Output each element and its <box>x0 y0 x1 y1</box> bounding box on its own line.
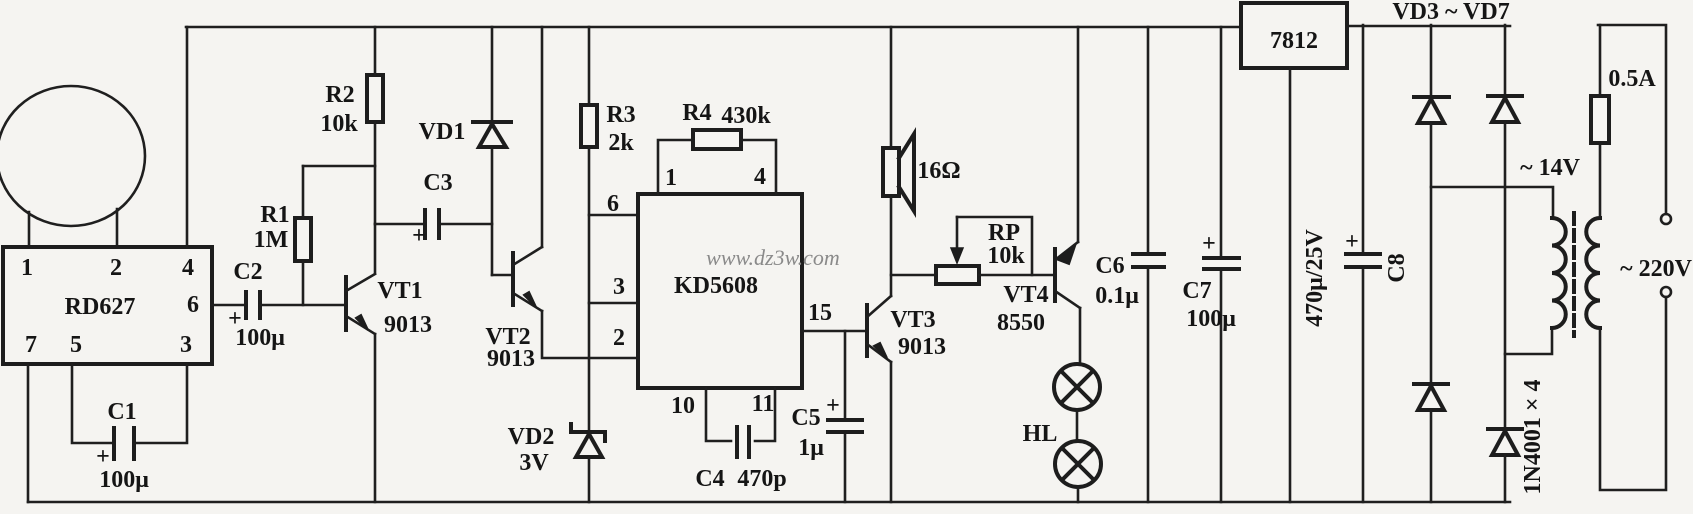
wire VT4 collector to lamps <box>1079 308 1082 364</box>
wire pin10 KD5608 <box>671 388 731 441</box>
capacitor C3 <box>375 170 492 249</box>
resistor R4 <box>682 100 771 149</box>
wire AC 14V <box>1431 155 1581 218</box>
svg-text:2: 2 <box>613 325 625 351</box>
svg-text:www.dz3w.com: www.dz3w.com <box>706 245 840 270</box>
transistor VT2 <box>485 247 542 372</box>
svg-text:470p: 470p <box>737 466 786 492</box>
svg-text:7812: 7812 <box>1270 28 1318 54</box>
wire pin11 KD5608 <box>752 388 775 441</box>
svg-text:8550: 8550 <box>997 310 1045 336</box>
transformer primary winding <box>1586 218 1600 328</box>
fuse 0.5A <box>1591 25 1656 143</box>
potentiometer RP <box>936 217 1032 284</box>
wire VT1 collector up / emitter down <box>374 224 377 502</box>
pin 2 RD627 <box>110 255 122 281</box>
wire VT2 collector to top rail <box>541 27 544 247</box>
svg-text:15: 15 <box>808 300 832 326</box>
svg-text:R4: R4 <box>682 100 711 126</box>
capacitor C1 <box>96 399 149 493</box>
wire top supply rail left of 7812 <box>186 26 1241 29</box>
svg-text:C8: C8 <box>1384 253 1410 282</box>
wire VT3 collector up <box>890 196 893 296</box>
svg-text:16Ω: 16Ω <box>917 158 960 184</box>
svg-text:C6: C6 <box>1095 253 1124 279</box>
svg-text:+: + <box>1345 229 1359 255</box>
pin 4 RD627 <box>182 255 194 281</box>
wire VD1 to VT2 base <box>492 274 513 277</box>
svg-text:C4: C4 <box>695 466 724 492</box>
svg-text:9013: 9013 <box>384 312 432 338</box>
svg-text:9013: 9013 <box>898 334 946 360</box>
svg-text:~ 220V: ~ 220V <box>1620 256 1692 282</box>
svg-text:430k: 430k <box>721 103 771 129</box>
pin 6 RD627 <box>187 292 199 318</box>
capacitor C2 <box>228 259 285 351</box>
svg-text:470μ/25V: 470μ/25V <box>1302 229 1328 327</box>
capacitor C7 <box>1182 27 1239 502</box>
svg-text:C1: C1 <box>107 399 136 425</box>
wire pin7 to ground <box>27 364 30 502</box>
label VD3~VD7 <box>1392 0 1509 25</box>
diode VD2 zener <box>508 424 605 502</box>
diode VD3 <box>1414 25 1449 384</box>
wire VT2 emitter to pin2 KD5608 <box>542 311 638 358</box>
wire VT3 emitter to ground <box>890 362 893 502</box>
svg-text:C3: C3 <box>423 170 452 196</box>
wire transformer secondary bottom <box>1505 328 1552 354</box>
svg-text:100μ: 100μ <box>99 467 149 493</box>
pin 7 RD627 <box>25 332 37 358</box>
svg-text:9013: 9013 <box>487 346 535 372</box>
resistor R3 <box>581 27 636 430</box>
wire R1 top to R2 line <box>303 165 375 168</box>
svg-text:+: + <box>412 223 426 249</box>
wire RP to VT4 base <box>979 274 1055 277</box>
pin 2 label KD5608 <box>613 325 625 351</box>
svg-text:6: 6 <box>187 292 199 318</box>
svg-text:10k: 10k <box>320 111 358 137</box>
svg-text:R2: R2 <box>325 82 354 108</box>
pin 5 RD627 <box>70 332 82 358</box>
wire 7812 ground pin <box>1289 68 1292 502</box>
svg-text:~ 14V: ~ 14V <box>1520 155 1580 181</box>
wire pin3 KD5608 <box>589 274 638 303</box>
svg-text:RD627: RD627 <box>65 294 136 320</box>
wire VT3 collector to RP <box>891 274 936 277</box>
terminal plug top <box>1661 214 1671 224</box>
diode VD6 <box>1488 379 1546 502</box>
svg-text:3V: 3V <box>519 450 549 476</box>
transistor VT1 <box>346 274 432 338</box>
svg-text:3: 3 <box>180 332 192 358</box>
svg-text:R3: R3 <box>606 102 635 128</box>
svg-text:0.5A: 0.5A <box>1608 66 1656 92</box>
svg-text:7: 7 <box>25 332 37 358</box>
capacitor C8 470u/25V <box>1302 25 1410 502</box>
svg-text:1N4001 × 4: 1N4001 × 4 <box>1520 379 1546 494</box>
resistor R1 <box>254 166 311 305</box>
wire pin1 KD5608 <box>658 140 693 194</box>
wire between lamps <box>1076 410 1079 441</box>
wire top rail right of 7812 <box>1347 25 1510 28</box>
svg-text:1M: 1M <box>254 227 289 253</box>
wire bottom ground rail <box>28 501 1510 504</box>
wire pin5 down <box>72 364 112 443</box>
lamp HL1 <box>1054 364 1100 410</box>
wire pin4 KD5608 <box>741 140 776 194</box>
svg-text:0.1μ: 0.1μ <box>1095 283 1139 309</box>
svg-text:VD3 ~ VD7: VD3 ~ VD7 <box>1392 0 1509 25</box>
diode VD1 <box>419 27 511 275</box>
svg-text:VD2: VD2 <box>508 424 555 450</box>
svg-text:C7: C7 <box>1182 278 1211 304</box>
svg-text:10k: 10k <box>987 243 1025 269</box>
svg-text:5: 5 <box>70 332 82 358</box>
label 220V <box>1620 256 1692 282</box>
svg-text:HL: HL <box>1023 421 1058 447</box>
wire pin4 to top rail <box>186 27 189 247</box>
svg-text:2k: 2k <box>608 130 634 156</box>
svg-text:VD1: VD1 <box>419 119 466 145</box>
svg-text:3: 3 <box>613 274 625 300</box>
svg-text:2: 2 <box>110 255 122 281</box>
diode VD5 <box>1414 384 1448 502</box>
svg-text:1μ: 1μ <box>798 435 824 461</box>
svg-text:4: 4 <box>754 164 766 190</box>
transistor VT4 <box>997 242 1080 336</box>
watermark <box>706 245 840 270</box>
svg-text:C5: C5 <box>791 405 820 431</box>
wire lamp2 to ground <box>1077 487 1080 502</box>
svg-text:+: + <box>826 393 840 419</box>
wire pin15 KD5608 to VT3 base <box>802 300 867 331</box>
svg-text:11: 11 <box>752 391 775 417</box>
svg-text:4: 4 <box>182 255 194 281</box>
transformer core <box>1572 213 1576 336</box>
svg-text:C2: C2 <box>233 259 262 285</box>
IC RD627 <box>3 247 212 364</box>
pin 1 RD627 <box>21 255 33 281</box>
capacitor C5 <box>791 331 862 502</box>
svg-text:VT3: VT3 <box>890 307 935 333</box>
terminal plug bottom <box>1661 287 1671 297</box>
wire pin6 KD5608 <box>589 191 638 217</box>
wire pin6 to C2 <box>212 304 245 307</box>
transformer secondary winding <box>1552 218 1566 328</box>
regulator 7812 <box>1241 3 1347 68</box>
IC KD5608 <box>638 194 802 388</box>
microphone head of RD627 <box>0 86 145 247</box>
svg-text:R1: R1 <box>260 202 289 228</box>
svg-text:VT4: VT4 <box>1003 282 1048 308</box>
wire C2 to VT1 base <box>260 304 346 307</box>
svg-text:1: 1 <box>665 165 677 191</box>
wire primary top to fuse <box>1599 143 1602 218</box>
svg-text:100μ: 100μ <box>1186 306 1236 332</box>
wire VT4 emitter to top rail <box>1077 27 1080 242</box>
svg-text:KD5608: KD5608 <box>674 273 758 299</box>
pin 3 RD627 <box>180 332 192 358</box>
svg-text:10: 10 <box>671 393 695 419</box>
svg-text:1: 1 <box>21 255 33 281</box>
svg-text:+: + <box>1202 231 1216 257</box>
svg-text:6: 6 <box>607 191 619 217</box>
capacitor C4 <box>695 427 786 492</box>
svg-text:100μ: 100μ <box>235 325 285 351</box>
transistor VT3 <box>867 296 946 362</box>
svg-text:VT1: VT1 <box>377 278 422 304</box>
wire pin3 down <box>136 364 187 443</box>
capacitor C6 <box>1095 27 1164 502</box>
lamp HL2 <box>1023 421 1101 487</box>
speaker 16ohm <box>883 27 961 211</box>
diode VD4 <box>1488 25 1522 429</box>
wire 220V loop <box>1598 25 1666 490</box>
resistor R2 <box>320 27 383 224</box>
